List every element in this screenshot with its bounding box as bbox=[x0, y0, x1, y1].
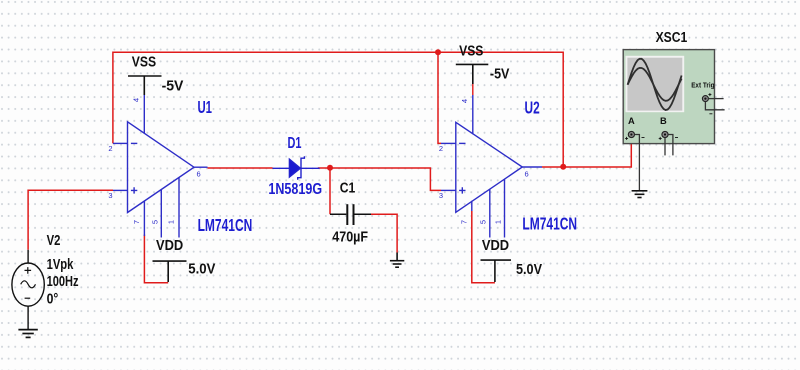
scope trace channel A (large sine) bbox=[628, 59, 682, 110]
scope terminal B bbox=[659, 131, 668, 140]
svg-text:100Hz: 100Hz bbox=[47, 273, 79, 290]
wire: C1 right plate to ground drop bbox=[371, 214, 397, 252]
svg-text:VSS: VSS bbox=[132, 53, 156, 70]
power VDD rail (U2) bbox=[481, 260, 512, 282]
svg-text:1: 1 bbox=[494, 220, 503, 224]
junction: feedback / U2 pin2 node bbox=[435, 49, 441, 55]
svg-text:2: 2 bbox=[439, 144, 443, 153]
svg-text:0°: 0° bbox=[47, 291, 59, 308]
svg-text:3: 3 bbox=[108, 191, 112, 200]
svg-text:LM741CN: LM741CN bbox=[198, 215, 253, 235]
junction: U2 output node bbox=[560, 164, 566, 170]
wire: feedback U1 pin2 up and across to U2 output bbox=[113, 52, 563, 167]
diode D1 bbox=[273, 156, 320, 180]
wire: U2 pin7 to VDD bbox=[472, 211, 495, 283]
svg-text:5.0V: 5.0V bbox=[188, 260, 216, 277]
svg-text:B: B bbox=[660, 116, 667, 126]
svg-text:V2: V2 bbox=[47, 232, 61, 249]
oscilloscope XSC1 bbox=[623, 50, 714, 144]
svg-text:VDD: VDD bbox=[482, 237, 509, 254]
wire: D1 cathode to junction to U2 pin3 corner bbox=[318, 168, 441, 190]
wire: U2 output to scope channel A bbox=[542, 139, 631, 167]
svg-text:5: 5 bbox=[479, 220, 488, 224]
power VDD rail (U1) bbox=[153, 261, 187, 282]
svg-text:VDD: VDD bbox=[156, 237, 183, 254]
ground (V2) bbox=[18, 330, 37, 338]
svg-text:U1: U1 bbox=[198, 97, 213, 117]
svg-text:7: 7 bbox=[460, 220, 469, 224]
svg-text:4: 4 bbox=[460, 99, 469, 103]
power VSS rail (U1) bbox=[128, 76, 162, 95]
wire: U1 output to D1 anode bbox=[208, 167, 273, 169]
svg-text:-5V: -5V bbox=[162, 78, 185, 95]
scope Ext Trig leads bbox=[709, 98, 724, 100]
svg-text:LM741CN: LM741CN bbox=[522, 214, 577, 234]
svg-text:5: 5 bbox=[151, 220, 160, 224]
junction: D1 cathode / C1 node bbox=[327, 165, 333, 171]
scope trace channel B (small sine) bbox=[628, 68, 682, 101]
wire: VSS stem red segment (U2) bbox=[472, 84, 474, 95]
svg-text:-5V: -5V bbox=[490, 66, 510, 83]
op-amp U2 bbox=[441, 95, 542, 238]
svg-text:Ext Trig: Ext Trig bbox=[691, 81, 714, 90]
wire: U1 pin7 to VDD bbox=[144, 235, 168, 283]
wire: U2 pin2 drop from feedback line bbox=[438, 52, 441, 143]
wire: V2 to U1 pin3 bbox=[28, 190, 113, 250]
svg-text:D1: D1 bbox=[288, 135, 302, 152]
svg-text:A: A bbox=[628, 116, 635, 126]
op-amp U1 bbox=[113, 95, 208, 238]
svg-text:5.0V: 5.0V bbox=[516, 261, 543, 278]
svg-text:470µF: 470µF bbox=[332, 228, 368, 245]
svg-text:1N5819G: 1N5819G bbox=[268, 181, 322, 198]
power VSS rail (U2) bbox=[456, 64, 489, 84]
scope terminal Ext Trig bbox=[702, 93, 711, 102]
source V2 bbox=[12, 250, 44, 330]
svg-text:XSC1: XSC1 bbox=[656, 30, 688, 46]
ground (scope) bbox=[632, 191, 648, 198]
svg-text:U2: U2 bbox=[525, 97, 540, 117]
svg-text:3: 3 bbox=[439, 191, 443, 200]
scope terminal A minus lead to ground bbox=[635, 135, 640, 191]
svg-text:4: 4 bbox=[132, 98, 141, 102]
ground (C1) bbox=[390, 253, 404, 268]
svg-text:1Vpk: 1Vpk bbox=[47, 256, 74, 273]
capacitor C1 bbox=[330, 204, 371, 225]
svg-text:C1: C1 bbox=[340, 179, 356, 196]
svg-text:6: 6 bbox=[525, 169, 529, 178]
scope terminal A bbox=[625, 131, 634, 140]
wire: junction down to C1 left plate bbox=[329, 168, 331, 214]
svg-text:7: 7 bbox=[132, 220, 141, 224]
svg-text:VSS: VSS bbox=[459, 43, 483, 60]
scope terminal B leads bbox=[664, 138, 666, 156]
svg-text:2: 2 bbox=[108, 144, 112, 153]
svg-text:1: 1 bbox=[167, 220, 176, 224]
svg-text:6: 6 bbox=[197, 169, 201, 178]
